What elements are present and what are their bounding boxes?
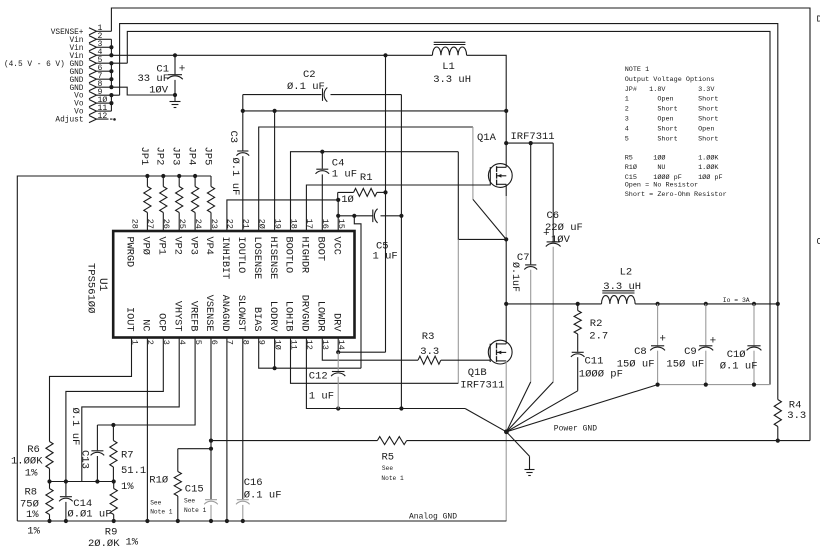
- capacitor C8 150 uF: [657, 304, 659, 345]
- node R10 bottom on AGND rail: [176, 519, 180, 523]
- node R10 line on pin 6 riser: [209, 447, 213, 451]
- node R8 bottom on AGND rail: [47, 519, 51, 523]
- svg-text:1%: 1%: [27, 526, 40, 538]
- wire R10 top to VSENSE riser: [178, 448, 211, 450]
- svg-text:4: 4: [177, 340, 187, 345]
- capacitor C7 0.1uF: [530, 143, 532, 264]
- wire J1-8 GND stub to C1 return: [97, 87, 176, 95]
- svg-text:Ø.Ø1 uF: Ø.Ø1 uF: [67, 509, 111, 521]
- wire GND net from J1 pins 5-8 across top to output cap ground rail: [127, 31, 770, 384]
- svg-text:R2: R2: [590, 318, 603, 330]
- svg-text:Open = No Resistor: Open = No Resistor: [625, 182, 698, 190]
- wire DRVGND diagonal to star ground: [465, 409, 506, 432]
- svg-text:VREFB: VREFB: [187, 301, 198, 332]
- wire analog ground rail: [17, 520, 506, 522]
- wire U1 pin 15 VCC riser: [337, 200, 339, 231]
- resistor R9 20.0K 1%: [113, 482, 115, 489]
- wire Vin bus vertical: [110, 39, 112, 55]
- wire Vo bus vertical: [110, 95, 112, 111]
- wire VCC bypass line: [338, 215, 373, 217]
- svg-text:1Ø: 1Ø: [272, 340, 282, 350]
- svg-text:VP2: VP2: [171, 237, 182, 255]
- svg-text:Q1B: Q1B: [468, 367, 487, 379]
- svg-text:Q1A: Q1A: [477, 132, 497, 144]
- resistor R10 see note 1: [177, 449, 179, 472]
- svg-text:C16: C16: [244, 477, 263, 489]
- svg-text:21: 21: [241, 219, 251, 229]
- capacitor C10 0.1 uF: [753, 304, 755, 345]
- node GND bus junction pin8: [109, 85, 113, 89]
- connector J1 pin 9 (Vo): [89, 92, 97, 99]
- node Vin rail junction R1 feed: [383, 53, 387, 57]
- wire node line VHYST: [50, 481, 114, 483]
- capacitor C1 33 uF 10V: [174, 55, 176, 74]
- node R1 right on Vin column: [383, 190, 387, 194]
- node R7/R9 junction: [112, 479, 116, 483]
- svg-text:15Ø uF: 15Ø uF: [666, 359, 704, 371]
- svg-text:DRV: DRV: [330, 313, 341, 332]
- wire U1 pin 8 SLOWST riser: [242, 338, 244, 500]
- wire DRV to Vin column: [338, 351, 385, 353]
- svg-text:11: 11: [288, 340, 298, 350]
- node C1 bottom junction: [173, 93, 177, 97]
- wire Q1B source to star ground (gray): [505, 361, 507, 521]
- node HISENSE at C2/C3 column: [241, 109, 245, 113]
- svg-text:L2: L2: [620, 267, 633, 279]
- svg-text:Vo: Vo: [74, 101, 84, 109]
- svg-text:C1Ø: C1Ø: [727, 349, 746, 361]
- svg-text:LOWDR: LOWDR: [315, 301, 326, 332]
- wire C7 diagonal to star ground: [506, 382, 530, 432]
- node JP bus junction JP3: [177, 174, 181, 178]
- svg-text:LOHIB: LOHIB: [283, 301, 294, 332]
- node output rail at Vo line / R4: [776, 302, 780, 306]
- wire VSENSE feedback line: [211, 440, 377, 442]
- svg-text:Output Voltage Options: Output Voltage Options: [625, 76, 715, 84]
- svg-text:1 uF: 1 uF: [309, 391, 334, 403]
- wire J1-2 Vin stub: [97, 38, 112, 40]
- node DRV junction: [336, 350, 340, 354]
- node switch node: [504, 237, 508, 241]
- svg-text:JP# 1.8V 3.3V: JP# 1.8V 3.3V: [625, 86, 716, 94]
- resistor R2 2.7: [577, 304, 579, 311]
- wire J1-6 GND stub: [97, 70, 112, 72]
- svg-text:1.ØØK: 1.ØØK: [11, 456, 43, 468]
- node JP bus junction JP1: [145, 174, 149, 178]
- svg-text:Vo: Vo: [74, 109, 84, 117]
- svg-text:51.1: 51.1: [121, 465, 146, 477]
- capacitor C9 150 uF: [705, 304, 707, 345]
- node HISENSE at pin 19 riser: [273, 109, 277, 113]
- wire Vo net from J1 pins 9-11 up and across top to output rail: [120, 24, 778, 304]
- wire U1 pin 12 DRVGND line: [306, 338, 465, 409]
- ground at star: [506, 432, 529, 457]
- connector J1 pin 5 ((4.5 V - 6 V) GND): [89, 60, 97, 67]
- node output rail at C8: [656, 302, 660, 306]
- svg-text:IOUT: IOUT: [124, 307, 135, 331]
- svg-text:C9: C9: [684, 346, 697, 358]
- svg-text:R5: R5: [382, 452, 395, 464]
- node Vin node at Q1A drain: [504, 141, 508, 145]
- wire R1 left to VCC riser: [337, 192, 339, 200]
- svg-text:17: 17: [304, 219, 314, 229]
- svg-text:C13: C13: [79, 450, 91, 469]
- capacitor C5 1 uF: [372, 210, 374, 223]
- capacitor C2 0.1 uF: [243, 94, 322, 96]
- svg-text:C2: C2: [303, 69, 316, 81]
- svg-text:VPØ: VPØ: [140, 237, 152, 255]
- node VCC riser at INHIBIT line: [336, 198, 340, 202]
- svg-text:IOUTLO: IOUTLO: [235, 237, 246, 274]
- wire star ground diagonal to cap gnd rail: [506, 385, 657, 432]
- wire U1 pin 6 VSENSE riser: [210, 338, 212, 500]
- svg-text:LODRV: LODRV: [267, 301, 278, 332]
- svg-text:1 Open Short: 1 Open Short: [625, 96, 719, 104]
- svg-text:SLOWST: SLOWST: [235, 295, 246, 332]
- node JP bus junction JP2: [161, 174, 165, 178]
- capacitor C11 1000 pF: [572, 351, 584, 353]
- svg-text:JP4: JP4: [186, 147, 198, 166]
- svg-text:(4.5 V - 6 V) GND: (4.5 V - 6 V) GND: [4, 61, 84, 69]
- svg-text:R7: R7: [121, 450, 134, 462]
- connector J1 pin 4 (Vin): [89, 52, 97, 59]
- svg-text:1%: 1%: [126, 537, 139, 548]
- node BIAS/LODRV junction: [273, 366, 277, 370]
- connector J1 pin 10 (Vo): [89, 100, 97, 107]
- node GND bus junction pin6: [109, 69, 113, 73]
- node Vin bus junction pin3: [109, 45, 113, 49]
- connector J1 pin 3 (Vin): [89, 44, 97, 51]
- ground at C1: [174, 95, 176, 102]
- svg-text:R8: R8: [25, 487, 38, 499]
- wire LOSENSE drop (gray): [472, 127, 474, 199]
- svg-text:R1Ø NU 1.ØØK: R1Ø NU 1.ØØK: [625, 163, 720, 172]
- node output rail at R2: [576, 302, 580, 306]
- svg-text:Ø.1 uF: Ø.1 uF: [287, 81, 325, 93]
- wire U1 pin 17 HIGHDR to Q1A gate: [306, 185, 490, 231]
- node NC bottom on AGND rail: [145, 519, 149, 523]
- wire VCC step down to BIAS line: [354, 216, 361, 368]
- node DRVGND at C12: [336, 406, 340, 410]
- svg-text:JP2: JP2: [154, 147, 166, 166]
- svg-text:27: 27: [145, 219, 155, 229]
- connector J1 pin 12 (Adjust): [89, 115, 97, 122]
- wire output rail switch node to sense: [506, 303, 601, 305]
- svg-text:BIAS: BIAS: [251, 307, 262, 331]
- resistor JP1: [146, 176, 148, 187]
- svg-text:3.3 uH: 3.3 uH: [433, 74, 471, 86]
- wire C11 diagonal to star ground: [506, 391, 577, 432]
- node Vin rail junction C1: [173, 53, 177, 57]
- svg-text:1Ø: 1Ø: [341, 194, 354, 206]
- svg-text:TPS561ØØ: TPS561ØØ: [85, 263, 97, 313]
- svg-text:Note 1: Note 1: [184, 507, 207, 514]
- wire bootstrap drop to switch node: [458, 152, 506, 240]
- node Vo bus junction pin9: [109, 93, 113, 97]
- wire U1 pin 19 HISENSE riser: [274, 111, 276, 231]
- svg-text:14: 14: [336, 340, 346, 350]
- svg-text:C15: C15: [185, 483, 204, 495]
- node VCC step junction: [352, 214, 356, 218]
- svg-text:3.3: 3.3: [420, 346, 439, 358]
- svg-text:26: 26: [161, 219, 171, 229]
- wire Q1B drain to output rail: [505, 304, 507, 344]
- svg-text:IRF7311: IRF7311: [460, 380, 504, 392]
- wire U1 pin 5 VREFB line: [97, 338, 195, 426]
- capacitor C16 0.1 uF: [237, 499, 249, 501]
- svg-text:VHYST: VHYST: [171, 301, 182, 332]
- svg-text:Note 1: Note 1: [381, 475, 404, 482]
- svg-text:2 Short Short: 2 Short Short: [625, 106, 719, 114]
- wire Vin node to C6/C7: [506, 142, 553, 144]
- svg-text:JP1: JP1: [138, 147, 150, 166]
- inductor L2 3.3 uH: [602, 296, 636, 304]
- node Vin node at C7: [529, 141, 533, 145]
- svg-text:2Ø: 2Ø: [257, 219, 267, 229]
- node star power ground: [504, 429, 509, 434]
- wire U1 pin 2 NC riser to AGND: [146, 338, 148, 522]
- wire J1-3 Vin stub: [97, 46, 112, 48]
- svg-text:R3: R3: [422, 331, 435, 343]
- svg-text:R1: R1: [360, 172, 373, 184]
- wire U1 pin 11 LOHIB line: [291, 338, 459, 384]
- svg-text:1ØV: 1ØV: [551, 234, 571, 246]
- svg-text:1: 1: [129, 340, 139, 345]
- svg-text:HIGHDR: HIGHDR: [299, 237, 310, 274]
- svg-text:6: 6: [209, 340, 219, 345]
- wire U1 pin 4 VHYST to node: [82, 338, 179, 482]
- node C14 top junction: [64, 479, 68, 483]
- svg-text:BOOTLO: BOOTLO: [283, 237, 294, 274]
- svg-text:1 uF: 1 uF: [332, 168, 357, 180]
- svg-text:2: 2: [145, 340, 155, 345]
- svg-text:See: See: [184, 498, 195, 505]
- node cap gnd rail at C8: [656, 383, 660, 387]
- op-amp U1 TPS56100 body: [113, 231, 354, 338]
- svg-text:Ø.1 uF: Ø.1 uF: [720, 361, 758, 373]
- svg-text:+: +: [179, 64, 186, 76]
- svg-text:22Ø uF: 22Ø uF: [545, 222, 583, 234]
- svg-text:16: 16: [320, 219, 330, 229]
- node DRVGND at C2 drop: [399, 406, 403, 410]
- capacitor C15 see note 1: [205, 499, 217, 501]
- wire J1-12 Adjust stub with no-connect: [97, 118, 109, 120]
- svg-text:Vin: Vin: [69, 45, 83, 53]
- node R6/R8 junction: [47, 479, 51, 483]
- svg-text:C11: C11: [585, 356, 604, 368]
- node C14 bottom on AGND rail: [64, 519, 68, 523]
- connector J1 pin 2 (Vin): [89, 36, 97, 43]
- resistor R8 750 1%: [49, 482, 51, 489]
- svg-text:C12: C12: [309, 371, 328, 383]
- wire J1-1 VSENSE+ stub: [97, 30, 112, 32]
- svg-text:1 uF: 1 uF: [373, 250, 398, 262]
- svg-text:VSENSE: VSENSE: [203, 295, 214, 332]
- node C16 bottom on AGND rail: [241, 519, 245, 523]
- transistor Q1A IRF7311: [488, 164, 512, 188]
- wire Q1A source to switch node: [505, 184, 507, 196]
- node C15 bottom on AGND rail: [209, 519, 213, 523]
- svg-text:GND: GND: [69, 77, 83, 85]
- svg-text:Short = Zero-Ohm Resistor: Short = Zero-Ohm Resistor: [625, 191, 727, 199]
- svg-text:U1: U1: [96, 278, 108, 292]
- connector J1 pin 1 (VSENSE+): [89, 28, 97, 35]
- node Vo bus junction pin10: [109, 101, 113, 105]
- svg-text:INHIBIT: INHIBIT: [219, 237, 230, 280]
- svg-text:Vo: Vo: [74, 93, 84, 101]
- svg-text:See: See: [150, 499, 161, 506]
- svg-text:Vin: Vin: [69, 37, 83, 45]
- svg-text:24: 24: [193, 219, 203, 229]
- wire L1 to Q1A drain: [467, 55, 507, 167]
- capacitor C14 0.01 uF: [65, 482, 67, 497]
- wire U1 pin 22 INHIBIT to VCC: [227, 200, 338, 231]
- svg-text:C6: C6: [547, 210, 560, 222]
- svg-text:D: D: [817, 15, 820, 25]
- wire C2 left drop to HISENSE: [242, 95, 244, 111]
- capacitor C6 220 uF 10V: [552, 143, 554, 241]
- capacitor C12 1 uF: [337, 352, 339, 371]
- svg-text:JP3: JP3: [170, 147, 182, 166]
- wire U1 pin 13 LOWDR line: [322, 338, 418, 361]
- wire C6 diagonal to star ground: [506, 382, 553, 432]
- resistor JP3: [178, 176, 180, 187]
- node R4 bottom on sense line: [776, 439, 780, 443]
- resistor JP2: [162, 176, 164, 187]
- svg-text:R1Ø: R1Ø: [149, 474, 168, 486]
- svg-text:DRVGND: DRVGND: [299, 295, 310, 332]
- wire VSENSE+ net from J1-1 to right edge and down to R4 bottom line: [111, 8, 810, 441]
- svg-text:12: 12: [304, 340, 314, 350]
- capacitor C3 0.1 uF on IOUTLO: [242, 111, 244, 151]
- svg-text:22: 22: [225, 219, 235, 229]
- svg-text:JP5: JP5: [201, 147, 213, 166]
- node C5 right on C2 drop: [399, 214, 403, 218]
- wire BOOTLO bootstrap rail: [291, 152, 459, 231]
- wire U1 pin 10 LODRV riser: [274, 338, 276, 369]
- node output rail at C9: [704, 302, 708, 306]
- node C13 bottom junction: [95, 479, 99, 483]
- svg-text:2Ø.ØK: 2Ø.ØK: [88, 538, 120, 548]
- svg-text:5: 5: [193, 340, 203, 345]
- svg-text:5 Short Short: 5 Short Short: [625, 135, 719, 143]
- svg-text:GND: GND: [69, 69, 83, 77]
- svg-text:VSENSE+: VSENSE+: [51, 29, 84, 37]
- svg-text:3.3: 3.3: [787, 410, 806, 422]
- svg-text:C: C: [817, 237, 820, 247]
- capacitor C13 0.1 uF: [96, 425, 98, 450]
- svg-text:VP4: VP4: [203, 237, 214, 255]
- svg-text:LOSENSE: LOSENSE: [251, 237, 262, 280]
- node R7 top junction: [111, 423, 115, 427]
- node Vin bus junction pin4: [109, 53, 113, 57]
- node cap gnd rail at C9: [704, 383, 708, 387]
- svg-text:Vin: Vin: [69, 53, 83, 61]
- node VCC riser at C5 line: [336, 214, 340, 218]
- svg-text:L1: L1: [442, 61, 455, 73]
- resistor R6 1.00K 1%: [46, 442, 53, 469]
- wire switch node to LOHIB (gray): [457, 239, 459, 383]
- connector J1 pin 11 (Vo): [89, 108, 97, 115]
- wire J1-7 GND stub: [97, 78, 112, 80]
- wire J1-5 GND stub to riser: [97, 62, 128, 64]
- resistor JP4: [194, 176, 196, 187]
- svg-text:IRF7311: IRF7311: [511, 131, 555, 143]
- svg-text:Io = 3A: Io = 3A: [723, 297, 750, 304]
- node output rail at Q1B drain: [504, 302, 508, 306]
- capacitor C4 1 uF BOOT to BOOTLO: [321, 152, 323, 169]
- svg-text:1ØV: 1ØV: [149, 85, 169, 97]
- svg-text:28: 28: [129, 219, 139, 229]
- resistor R7 51.1 1%: [112, 425, 114, 441]
- svg-text:15: 15: [336, 219, 346, 229]
- node HISENSE at Q1A drain: [504, 109, 508, 113]
- svg-text:15Ø uF: 15Ø uF: [617, 359, 655, 371]
- svg-text:8: 8: [241, 340, 251, 345]
- svg-text:C3: C3: [227, 131, 239, 144]
- svg-text:See: See: [382, 465, 393, 472]
- wire U1 pin 14 DRV lead: [337, 338, 339, 353]
- connector J1 pin 7 (GND): [89, 76, 97, 83]
- svg-text:+: +: [710, 336, 717, 348]
- wire Vin rail from bus to L1: [111, 54, 432, 56]
- svg-text:+: +: [659, 334, 666, 346]
- svg-text:R5 1ØØ 1.ØØK: R5 1ØØ 1.ØØK: [625, 153, 720, 162]
- node ANAGND on AGND rail: [225, 519, 229, 523]
- svg-text:Ø.1 uF: Ø.1 uF: [244, 490, 282, 502]
- svg-text:Adjust: Adjust: [55, 117, 83, 125]
- node cap gnd rail at C10: [752, 383, 756, 387]
- svg-text:19: 19: [272, 219, 282, 229]
- resistor JP5: [210, 176, 212, 187]
- resistor R3 3.3: [418, 356, 441, 364]
- svg-text:18: 18: [288, 219, 298, 229]
- svg-text:VP3: VP3: [187, 237, 198, 255]
- wire J1-10 Vo stub: [97, 102, 112, 104]
- svg-text:1%: 1%: [121, 481, 134, 493]
- svg-text:C8: C8: [634, 346, 647, 358]
- node bootstrap at C4: [320, 150, 324, 154]
- svg-text:VCC: VCC: [330, 237, 341, 255]
- svg-text:GND: GND: [69, 85, 83, 93]
- svg-text:OCP: OCP: [156, 313, 167, 331]
- svg-text:Ø.1 uF: Ø.1 uF: [69, 408, 81, 446]
- wire J1-9 Vo stub to riser: [97, 94, 120, 96]
- svg-text:Power GND: Power GND: [554, 425, 597, 434]
- wire J1-4 Vin stub: [97, 54, 112, 56]
- svg-text:25: 25: [177, 219, 187, 229]
- wire U1 pin 9 BIAS line: [259, 338, 361, 369]
- connector J1 pin 6 (GND): [89, 68, 97, 75]
- svg-text:1%: 1%: [25, 468, 38, 480]
- svg-text:3 Open Short: 3 Open Short: [625, 116, 719, 124]
- svg-text:Ø.1 uF: Ø.1 uF: [229, 158, 241, 196]
- svg-text:3.3 uH: 3.3 uH: [603, 281, 641, 293]
- resistor R4 3.3: [777, 304, 779, 400]
- svg-text:R6: R6: [27, 444, 40, 456]
- svg-text:1%: 1%: [26, 509, 39, 521]
- wire C2 right drop to DRVGND net: [400, 95, 402, 409]
- wire output rail after L2: [635, 303, 778, 305]
- svg-text:3: 3: [161, 340, 171, 345]
- svg-text:Note 1: Note 1: [150, 509, 173, 516]
- wire U1 pin 20 LOSENSE riser: [259, 127, 473, 231]
- node VSENSE riser at R5 line: [209, 439, 213, 443]
- node output rail at C10: [752, 302, 756, 306]
- wire J1-11 Vo stub: [97, 110, 112, 112]
- wire U1 pin 1 IOUT to R6: [50, 338, 132, 442]
- transistor Q1B IRF7311: [488, 340, 512, 364]
